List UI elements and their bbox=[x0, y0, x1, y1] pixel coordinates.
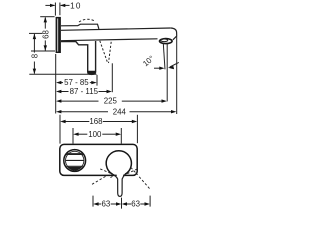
svg-text:57 - 85: 57 - 85 bbox=[64, 78, 89, 87]
svg-text:87 - 115: 87 - 115 bbox=[70, 87, 99, 96]
svg-text:63: 63 bbox=[131, 199, 140, 208]
svg-text:68: 68 bbox=[42, 30, 51, 39]
svg-text:63: 63 bbox=[102, 199, 111, 208]
svg-text:244: 244 bbox=[113, 107, 127, 116]
svg-text:10: 10 bbox=[70, 1, 82, 10]
svg-text:8: 8 bbox=[30, 53, 39, 58]
svg-text:225: 225 bbox=[104, 97, 118, 106]
svg-text:168: 168 bbox=[89, 117, 103, 126]
svg-text:100: 100 bbox=[88, 130, 102, 139]
